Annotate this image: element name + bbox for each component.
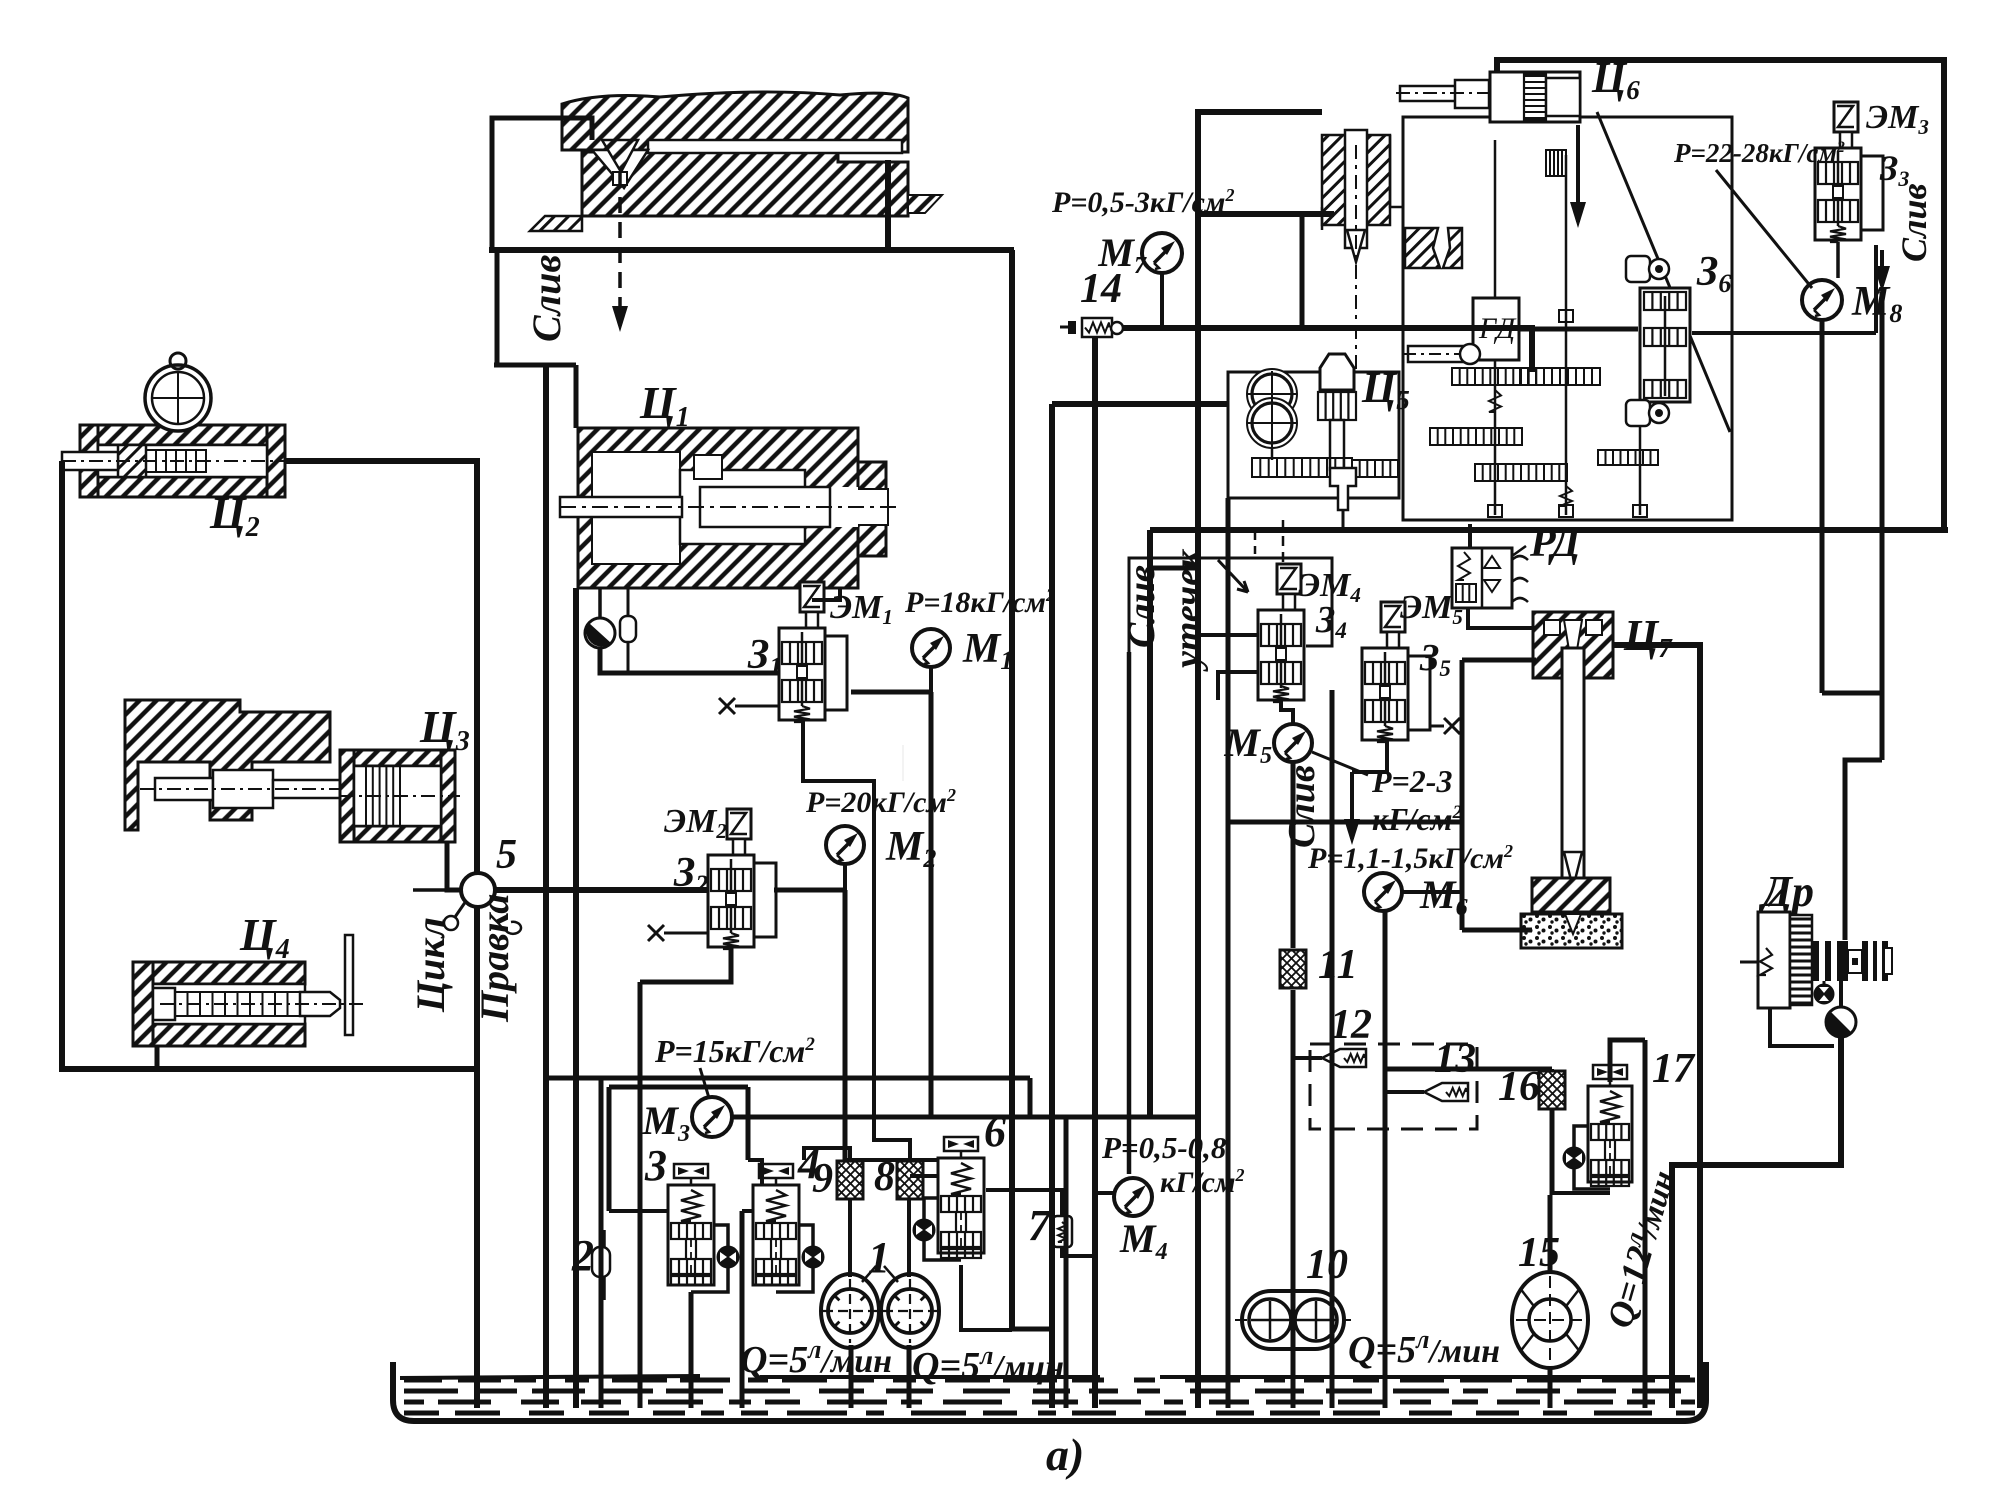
svg-text:14: 14 [1080,266,1122,312]
svg-text:РД: РД [1529,520,1581,566]
svg-text:Слив: Слив [1894,183,1934,262]
svg-text:P=22-28кГ/см2: P=22-28кГ/см2 [1673,138,1845,168]
svg-text:11: 11 [1318,942,1358,988]
svg-text:P=1,1-1,5кГ/см2: P=1,1-1,5кГ/см2 [1307,841,1513,875]
svg-text:Цикл: Цикл [408,917,453,1013]
svg-text:Слив: Слив [1121,565,1163,648]
svg-text:9: 9 [812,1156,833,1202]
svg-text:Др: Др [1758,867,1814,916]
svg-text:13: 13 [1434,1036,1476,1082]
svg-text:Слив: Слив [1281,765,1323,848]
svg-text:5: 5 [496,832,517,878]
svg-text:10: 10 [1306,1242,1348,1288]
svg-text:15: 15 [1518,1230,1560,1276]
svg-text:7: 7 [1028,1201,1052,1250]
svg-text:P=0,5-0,8: P=0,5-0,8 [1101,1130,1227,1165]
svg-text:P=15кГ/см2: P=15кГ/см2 [654,1033,815,1069]
svg-text:Слив: Слив [524,255,569,342]
svg-text:P=2-3: P=2-3 [1371,763,1452,799]
svg-text:кГ/см2: кГ/см2 [1372,801,1463,837]
svg-text:3: 3 [644,1141,667,1190]
svg-text:P=18кГ/см2: P=18кГ/см2 [904,585,1055,619]
svg-text:1: 1 [868,1233,890,1282]
svg-text:17: 17 [1652,1046,1696,1092]
svg-text:кГ/см2: кГ/см2 [1160,1165,1245,1199]
svg-text:12: 12 [1330,1002,1372,1048]
svg-text:а): а) [1046,1429,1084,1480]
svg-text:6: 6 [984,1107,1006,1156]
